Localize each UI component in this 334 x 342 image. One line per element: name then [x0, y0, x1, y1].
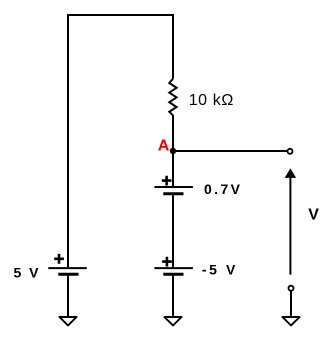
ground right: [282, 317, 299, 325]
svg-text:V: V: [308, 207, 319, 224]
wire bottom terminal to right ground: [290, 291, 292, 316]
battery V2 plus sign: [162, 176, 172, 186]
battery V1 plus sign: [54, 254, 64, 264]
resistor R1 10 kOhm: [169, 79, 176, 116]
wire top horizontal: [67, 14, 174, 16]
svg-text:10 kΩ: 10 kΩ: [189, 92, 234, 109]
node A junction dot: [170, 148, 176, 154]
wire resistor to battery V2 through node A: [172, 115, 174, 186]
battery V1 5V short plate: [58, 273, 78, 276]
terminal top right: [288, 149, 293, 154]
wire right vertical top: [172, 14, 174, 79]
battery V1 5V long plate: [48, 267, 87, 269]
battery V2 0.7V short plate: [163, 192, 183, 195]
voltmeter arrowhead: [285, 168, 296, 178]
battery V3 plus sign: [162, 257, 172, 267]
battery V3 -5V short plate: [163, 273, 183, 276]
svg-text:5 V: 5 V: [14, 264, 41, 280]
wire node A to right terminal: [173, 150, 287, 152]
svg-text:-5 V: -5 V: [202, 261, 238, 277]
ground middle: [164, 317, 181, 325]
terminal bottom right: [289, 286, 294, 291]
wire battery V3 to middle ground: [172, 276, 174, 316]
voltmeter arrow line: [289, 177, 291, 275]
wire left vertical: [67, 14, 69, 267]
wire battery V1 to left ground: [67, 276, 69, 316]
svg-text:0.7V: 0.7V: [204, 181, 242, 197]
battery V3 -5V long plate: [154, 267, 193, 269]
battery V2 0.7V long plate: [154, 186, 193, 188]
ground left: [59, 317, 76, 325]
wire battery V2 to battery V3: [172, 195, 174, 267]
svg-text:A: A: [158, 137, 170, 154]
